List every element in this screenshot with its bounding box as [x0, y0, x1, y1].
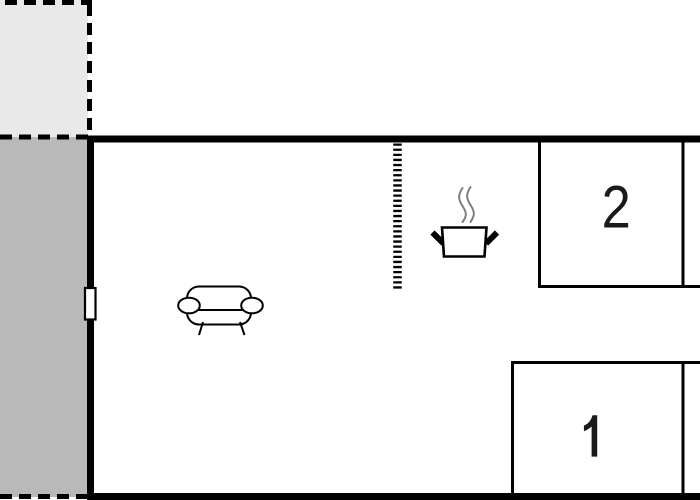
wall bottom: [87, 493, 700, 500]
stove pot steam right: [467, 187, 474, 222]
sofa leg right: [240, 322, 245, 335]
sofa leg left: [199, 322, 203, 335]
sofa seat line: [188, 309, 251, 311]
stove pot steam left: [459, 188, 466, 222]
sofa: [178, 287, 263, 336]
stove pot body: [442, 228, 487, 257]
room 1 walls: [511, 361, 700, 496]
door left wall: [85, 288, 96, 320]
partition dashed line: [393, 144, 402, 290]
room 2 walls: [538, 142, 700, 288]
terrace dashed border bottom: [0, 494, 88, 499]
terrace dashed divider: [0, 135, 90, 140]
sofa body: [187, 287, 251, 325]
wall left: [87, 136, 94, 500]
terrace dashed border top: [5, 0, 92, 5]
sofa armrest left: [178, 298, 200, 314]
sofa armrest right: [241, 298, 263, 314]
wall top: [87, 136, 700, 143]
stove pot handle left: [433, 233, 444, 244]
terrace upper (light grey): [0, 0, 88, 137]
room label 1: [584, 415, 597, 456]
terrace lower (dark grey): [0, 137, 88, 497]
svg-text:2: 2: [602, 173, 631, 240]
terrace dashed border right: [87, 4, 92, 137]
stove pot handle right: [486, 233, 497, 244]
